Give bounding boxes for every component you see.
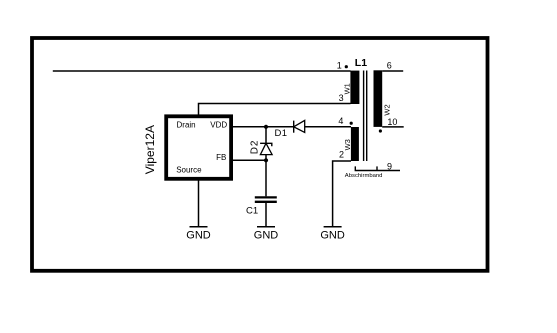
ground GND2 xyxy=(254,227,279,242)
capacitor C1 xyxy=(246,197,277,216)
op-amp U1 Viper12A body xyxy=(166,116,231,179)
svg-text:GND: GND xyxy=(320,230,345,242)
svg-text:Drain: Drain xyxy=(177,121,196,130)
transformer winding W2 xyxy=(374,70,392,127)
wire VDD to node A xyxy=(233,126,294,128)
svg-text:3: 3 xyxy=(339,93,344,103)
W1 polarity dot xyxy=(345,65,348,68)
svg-text:9: 9 xyxy=(387,162,392,172)
ground GND1 xyxy=(186,227,211,242)
W3 polarity dot xyxy=(350,122,353,125)
svg-text:W1: W1 xyxy=(342,83,351,94)
ground GND3 xyxy=(320,227,345,242)
svg-text:GND: GND xyxy=(186,230,211,242)
pin 10 wire xyxy=(382,126,404,128)
wire pin 2 to ground xyxy=(333,161,351,227)
svg-text:Source: Source xyxy=(176,165,202,174)
wire node B down to C1 xyxy=(265,160,267,196)
shield Abschirmband xyxy=(345,166,400,179)
wire C1 to ground xyxy=(265,203,267,227)
node B junction dot xyxy=(264,158,268,162)
svg-text:L1: L1 xyxy=(355,57,367,69)
node A junction dot xyxy=(264,125,268,129)
wire Drain to pin 3 xyxy=(199,104,351,117)
pin 6 wire xyxy=(382,70,403,72)
svg-text:W2: W2 xyxy=(382,104,391,115)
svg-text:4: 4 xyxy=(338,116,343,126)
svg-text:D1: D1 xyxy=(275,128,288,139)
svg-text:Viper12A: Viper12A xyxy=(143,125,157,174)
transformer core xyxy=(364,71,367,162)
transformer winding W1 xyxy=(342,71,359,104)
transformer winding W3 xyxy=(343,127,359,161)
zener diode D2 xyxy=(250,127,273,161)
wire FB to node B xyxy=(233,159,266,161)
wire Source to ground xyxy=(198,179,200,227)
svg-text:D2: D2 xyxy=(250,140,261,155)
wire AC input to pin 1 xyxy=(53,70,351,72)
svg-text:GND: GND xyxy=(254,230,279,242)
svg-text:FB: FB xyxy=(216,153,226,162)
svg-text:Abschirmband: Abschirmband xyxy=(345,173,383,179)
svg-text:1: 1 xyxy=(337,61,342,71)
W2 polarity dot xyxy=(379,129,382,132)
svg-text:6: 6 xyxy=(387,61,392,71)
svg-text:10: 10 xyxy=(387,117,397,127)
svg-text:2: 2 xyxy=(339,150,344,160)
svg-text:W3: W3 xyxy=(343,139,352,150)
svg-text:C1: C1 xyxy=(246,206,258,217)
diode D1 xyxy=(275,120,305,139)
border frame xyxy=(32,38,488,271)
wire D1 to pin 4 xyxy=(305,126,351,128)
svg-text:VDD: VDD xyxy=(210,121,227,130)
